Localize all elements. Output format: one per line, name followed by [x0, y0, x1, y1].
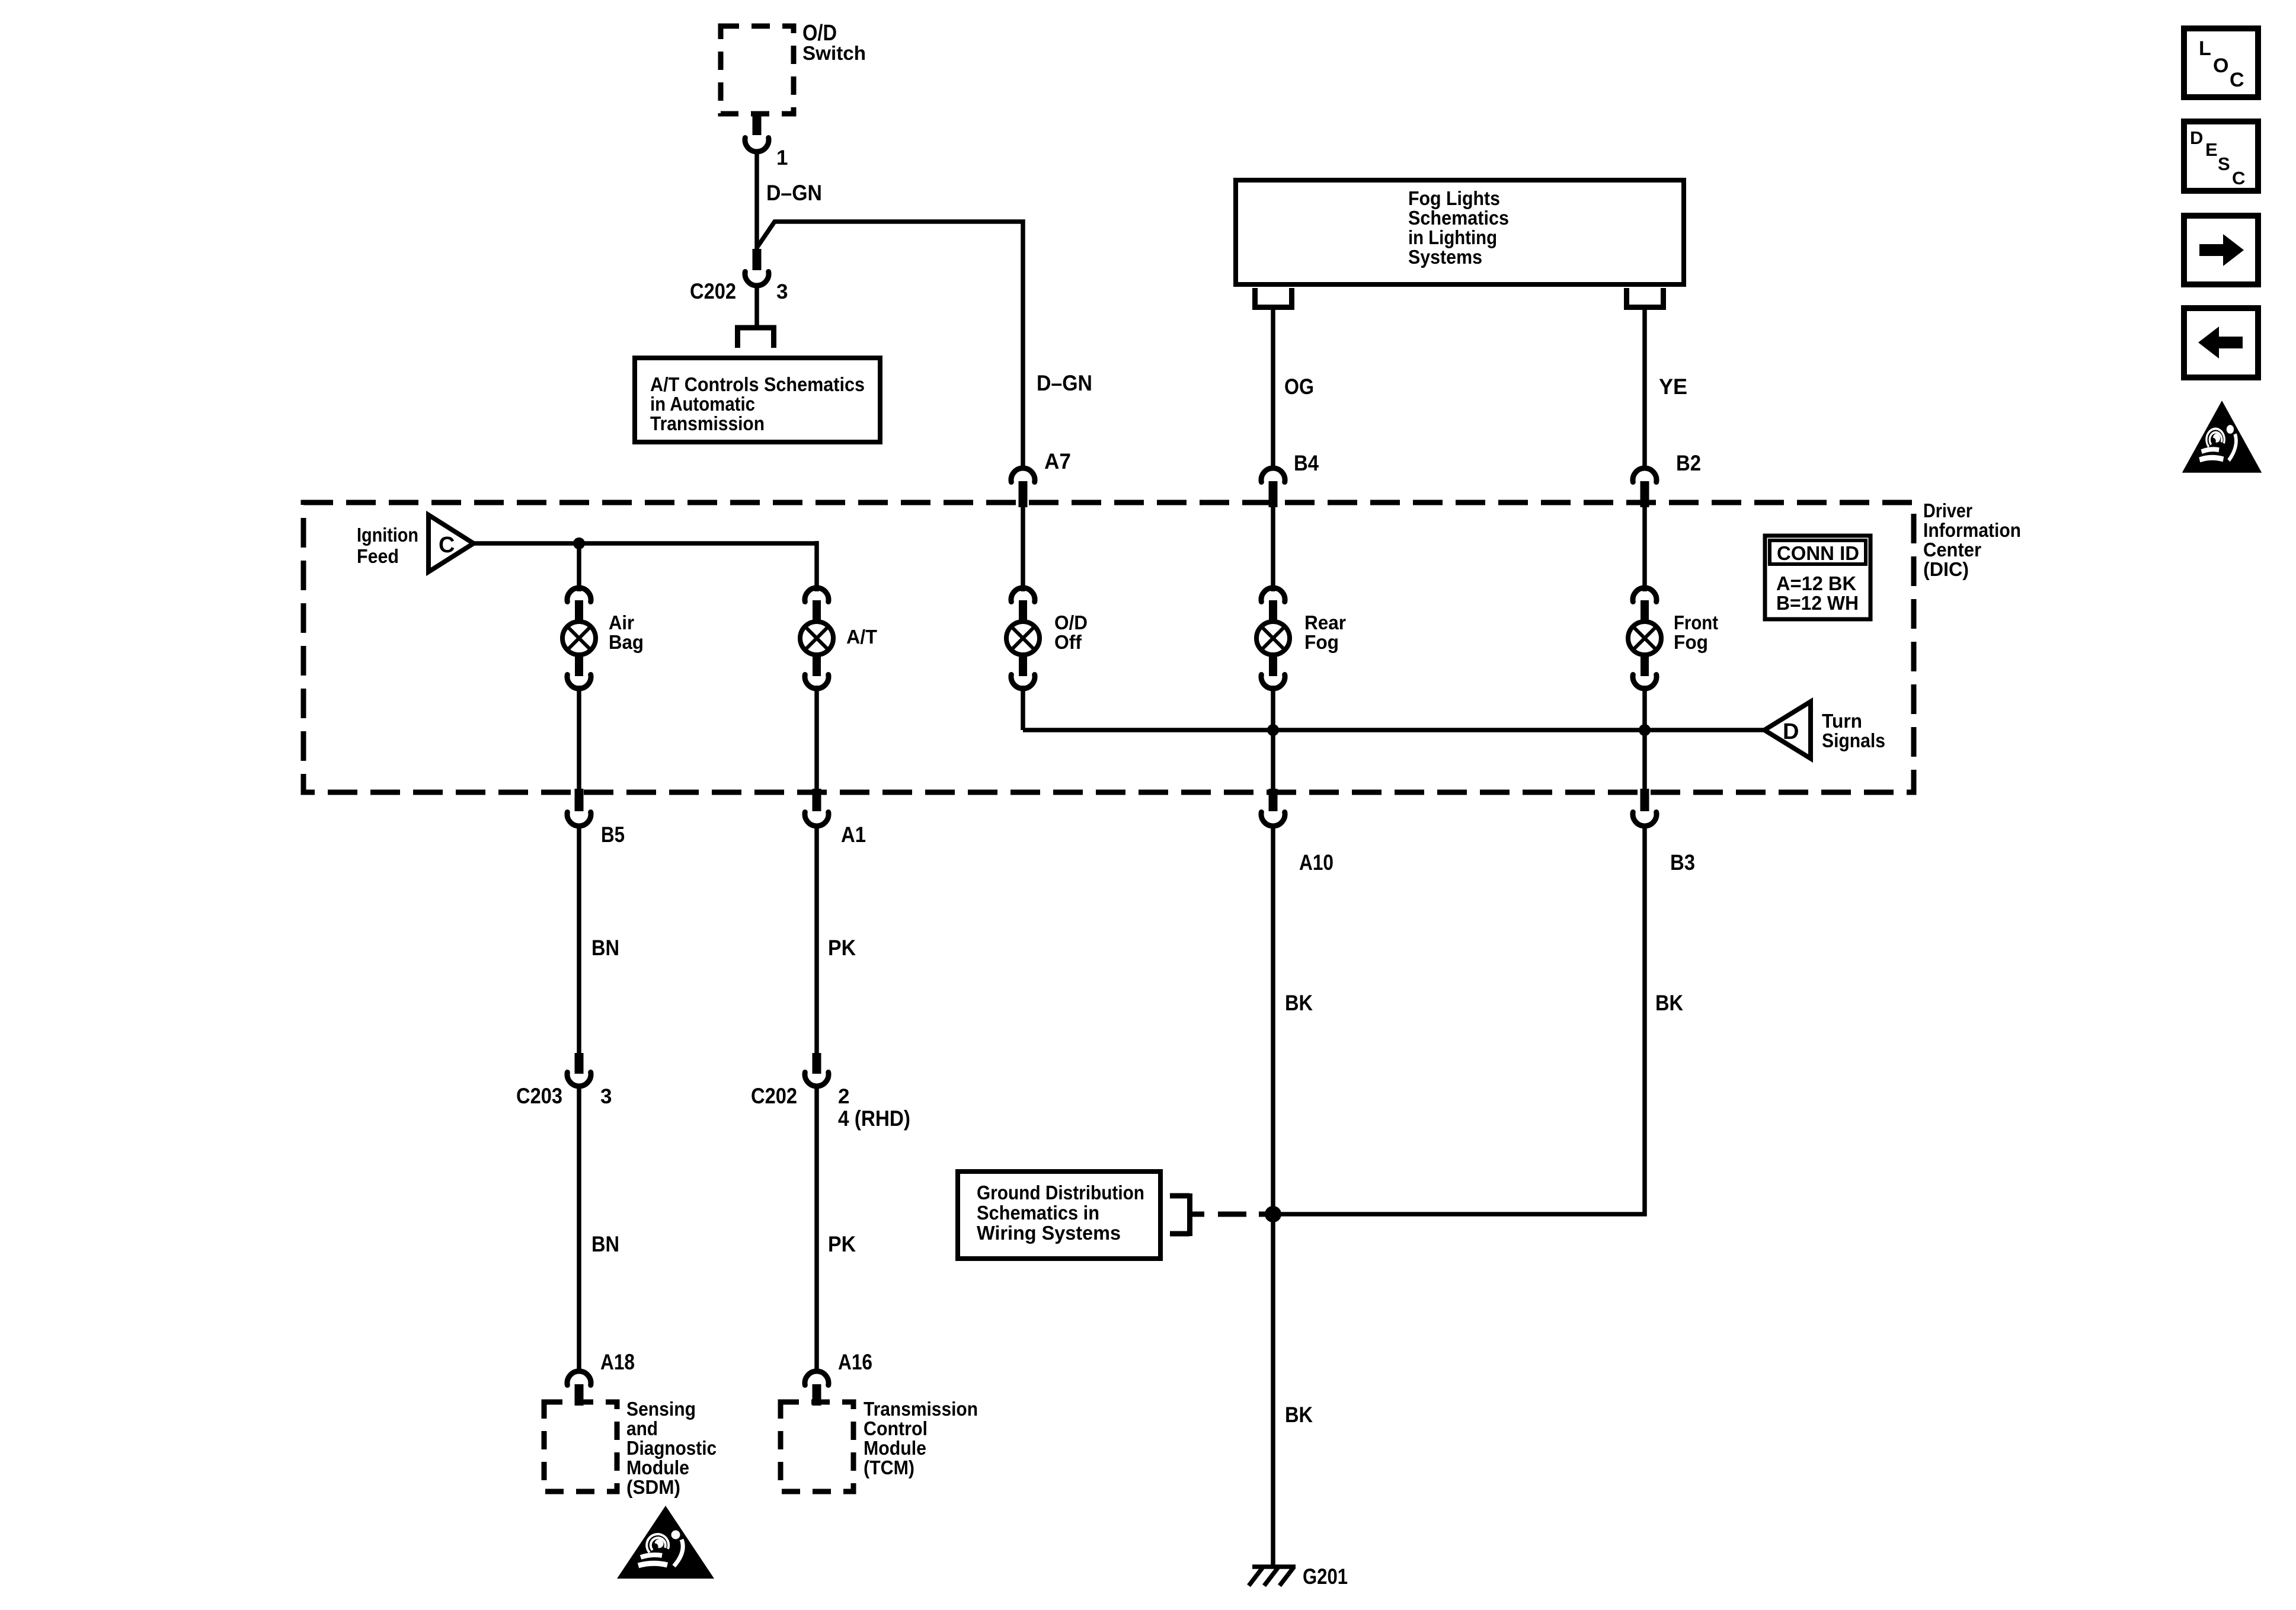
svg-text:YE: YE	[1659, 375, 1687, 399]
svg-text:Turn: Turn	[1822, 710, 1862, 732]
svg-text:E: E	[2205, 139, 2218, 160]
Fog Lights Schematics box	[1236, 180, 1684, 284]
connector pin 1 of O/D Switch	[745, 114, 788, 169]
sidebar LOC icon	[2184, 28, 2258, 97]
bracket from Ground Distribution box	[1170, 1193, 1204, 1236]
svg-text:3: 3	[776, 280, 788, 303]
svg-text:O: O	[2213, 55, 2228, 77]
svg-text:A/T Controls Schematics: A/T Controls Schematics	[650, 373, 865, 395]
wire B4 to Rear Fog lamp	[1271, 507, 1275, 591]
indicator lamp O/D Off	[1006, 588, 1088, 689]
sidebar forward arrow icon	[2184, 216, 2258, 284]
O/D Switch dashed box	[721, 21, 866, 114]
connector A18 at SDM	[567, 1350, 635, 1406]
svg-text:Wiring Systems: Wiring Systems	[977, 1222, 1121, 1244]
wire BN from C203 to A18	[579, 1086, 619, 1370]
svg-text:A18: A18	[600, 1350, 635, 1374]
svg-text:B5: B5	[601, 822, 625, 847]
svg-text:C: C	[2232, 168, 2245, 188]
svg-text:B2: B2	[1676, 451, 1701, 475]
svg-text:BN: BN	[591, 936, 619, 960]
Sensing and Diagnostic Module dashed box	[544, 1398, 717, 1498]
wire BK from A10 to ground junction	[1273, 824, 1313, 1214]
wire PK from C202 to A16	[817, 1086, 856, 1370]
svg-text:Driver: Driver	[1923, 500, 1972, 521]
indicator lamp Rear Fog	[1256, 588, 1346, 689]
svg-text:Rear: Rear	[1304, 612, 1346, 633]
svg-text:C: C	[439, 533, 455, 558]
svg-text:and: and	[626, 1417, 658, 1439]
terminal triangle C (Ignition Feed)	[428, 515, 474, 572]
junction node at Rear Fog column	[1267, 724, 1279, 736]
wire BK from junction to G201	[1273, 1214, 1313, 1566]
svg-text:S: S	[2218, 153, 2230, 174]
svg-text:D–GN: D–GN	[1037, 371, 1092, 395]
off-page bracket right (Front Fog feed)	[1624, 288, 1666, 308]
svg-text:D–GN: D–GN	[766, 181, 822, 205]
indicator lamp Air Bag	[562, 588, 644, 689]
svg-text:C202: C202	[690, 279, 736, 303]
svg-text:Off: Off	[1054, 631, 1082, 653]
svg-text:A10: A10	[1299, 850, 1334, 875]
svg-text:PK: PK	[828, 1232, 856, 1256]
svg-text:Control: Control	[864, 1417, 928, 1439]
svg-text:CONN ID: CONN ID	[1777, 542, 1859, 564]
svg-text:G201: G201	[1303, 1564, 1348, 1589]
wire OG to B4	[1273, 307, 1314, 468]
svg-text:(TCM): (TCM)	[864, 1457, 914, 1478]
junction node at Front Fog column	[1639, 724, 1651, 736]
wire BK from B3 to ground junction	[1281, 824, 1683, 1214]
svg-text:C202: C202	[751, 1084, 797, 1108]
sidebar airbag warning triangle	[2182, 401, 2262, 473]
wire junction to Air Bag lamp	[577, 543, 581, 591]
svg-text:1: 1	[776, 146, 788, 169]
svg-text:BK: BK	[1285, 1403, 1313, 1427]
connector C202 pin 3	[690, 249, 788, 303]
svg-text:Transmission: Transmission	[864, 1398, 978, 1420]
svg-text:2: 2	[838, 1085, 849, 1108]
turn signals bus wire	[1023, 686, 1764, 730]
connector C202 pin 2	[751, 1053, 910, 1131]
svg-text:B4: B4	[1294, 451, 1319, 475]
junction node at Air Bag column	[573, 537, 585, 549]
svg-text:Ignition: Ignition	[357, 524, 418, 546]
svg-text:Information: Information	[1923, 519, 2021, 541]
svg-text:B3: B3	[1670, 850, 1695, 875]
svg-text:BN: BN	[591, 1232, 619, 1256]
ground symbol G201	[1249, 1564, 1348, 1589]
svg-text:Fog: Fog	[1674, 631, 1708, 653]
wire C202 to off-page bracket	[754, 286, 759, 327]
sidebar back arrow icon	[2184, 308, 2258, 377]
svg-text:C203: C203	[516, 1084, 562, 1108]
terminal triangle D (Turn Signals)	[1764, 702, 1885, 758]
svg-text:OG: OG	[1284, 375, 1314, 399]
svg-text:Systems: Systems	[1408, 246, 1482, 268]
svg-text:Diagnostic: Diagnostic	[626, 1437, 717, 1459]
svg-text:BK: BK	[1285, 991, 1313, 1015]
connector A10 below DIC border	[1261, 789, 1334, 875]
svg-text:4 (RHD): 4 (RHD)	[838, 1106, 910, 1131]
indicator lamp Front Fog	[1628, 588, 1718, 689]
wire branch to A7	[757, 222, 1023, 468]
svg-text:Fog Lights: Fog Lights	[1408, 187, 1500, 209]
svg-text:A7: A7	[1044, 449, 1071, 473]
wire B2 to Front Fog lamp	[1642, 507, 1647, 591]
svg-text:A16: A16	[838, 1350, 872, 1374]
svg-text:Air: Air	[609, 612, 634, 633]
connector B3 below DIC border	[1633, 789, 1695, 875]
connector B4 at DIC border	[1261, 451, 1319, 507]
ground junction node	[1265, 1206, 1281, 1222]
off-page bracket to A/T Controls	[735, 328, 776, 348]
svg-text:(DIC): (DIC)	[1923, 558, 1969, 580]
svg-text:3: 3	[600, 1085, 612, 1108]
svg-text:Schematics in: Schematics in	[977, 1202, 1099, 1224]
svg-text:Bag: Bag	[609, 631, 644, 653]
Ground Distribution box	[958, 1172, 1160, 1259]
svg-text:L: L	[2199, 37, 2211, 60]
svg-text:B=12 WH: B=12 WH	[1776, 592, 1859, 614]
svg-text:A=12 BK: A=12 BK	[1776, 572, 1856, 594]
svg-text:(SDM): (SDM)	[626, 1476, 680, 1498]
svg-text:A1: A1	[841, 822, 866, 847]
connector C203 pin 3	[516, 1053, 612, 1108]
svg-text:C: C	[2230, 69, 2244, 91]
svg-text:Transmission: Transmission	[650, 412, 765, 434]
svg-text:Center: Center	[1923, 539, 1981, 561]
svg-text:Module: Module	[626, 1457, 689, 1478]
svg-text:BK: BK	[1655, 991, 1683, 1015]
wire A/T lamp to A1	[814, 686, 819, 791]
svg-text:Feed: Feed	[357, 545, 399, 567]
wire D-GN from pin 1 to C202	[757, 152, 822, 249]
svg-text:Module: Module	[864, 1437, 926, 1459]
A/T Controls Schematics box	[635, 358, 880, 442]
wire YE to B2	[1645, 307, 1687, 468]
wire Rear Fog lamp to A10	[1271, 686, 1275, 791]
svg-text:PK: PK	[828, 936, 856, 960]
svg-text:Fog: Fog	[1304, 631, 1339, 653]
svg-text:Schematics: Schematics	[1408, 207, 1509, 229]
dashed reference wire to ground junction	[1218, 1212, 1267, 1217]
connector A16 at TCM	[805, 1350, 872, 1406]
Transmission Control Module dashed box	[781, 1398, 978, 1491]
svg-text:Front: Front	[1674, 612, 1718, 633]
connector A1 below DIC border	[805, 789, 866, 847]
svg-text:A/T: A/T	[846, 626, 877, 648]
svg-text:in Lighting: in Lighting	[1408, 226, 1497, 248]
connector A7 at DIC border	[1011, 449, 1071, 507]
ignition feed bus wire	[474, 541, 817, 546]
CONN ID table	[1765, 536, 1870, 619]
connector B2 at DIC border	[1633, 451, 1701, 507]
svg-text:Sensing: Sensing	[626, 1398, 696, 1420]
Ignition Feed label	[357, 524, 418, 567]
wire A7 to O/D Off lamp	[1021, 507, 1025, 591]
wire BN from B5 to C203	[579, 824, 619, 1054]
svg-text:Switch: Switch	[802, 42, 866, 64]
svg-text:D: D	[2190, 127, 2203, 148]
svg-text:O/D: O/D	[1054, 612, 1088, 633]
wire corner to A/T lamp	[814, 541, 819, 591]
wire Air Bag lamp to B5	[577, 686, 581, 791]
svg-text:D: D	[1783, 719, 1799, 744]
svg-text:in Automatic: in Automatic	[650, 393, 755, 415]
svg-text:Ground Distribution: Ground Distribution	[977, 1182, 1144, 1204]
off-page bracket left (Rear Fog feed)	[1252, 288, 1294, 308]
svg-text:Signals: Signals	[1822, 729, 1885, 751]
connector B5 below DIC border	[567, 789, 625, 847]
wire PK from A1 to C202	[817, 824, 856, 1054]
airbag warning triangle (bottom)	[617, 1506, 714, 1579]
Driver Information Center dashed border	[303, 500, 2021, 792]
wire Front Fog lamp to B3	[1642, 686, 1647, 791]
sidebar DESC icon	[2184, 121, 2258, 191]
indicator lamp A/T	[800, 588, 877, 689]
